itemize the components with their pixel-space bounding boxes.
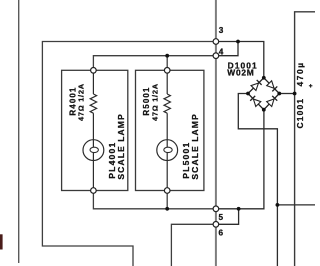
lamp assembly box 1 bbox=[62, 70, 128, 190]
wire: box1 internal top lead bbox=[92, 72, 94, 94]
pin 5 connector bbox=[213, 206, 219, 212]
resistor R4001 bbox=[90, 94, 96, 113]
wire: lamp bottom return to pin 5 bbox=[93, 191, 215, 209]
wire: box2 mid lead bbox=[166, 113, 168, 147]
wire: box1 mid lead bbox=[92, 113, 94, 147]
wire: lamp top feed to pin 4 bbox=[93, 56, 215, 71]
lamp PL5001 bbox=[157, 140, 178, 161]
diode bottom-right bbox=[267, 96, 278, 107]
svg-text:6: 6 bbox=[219, 228, 224, 237]
svg-text:C1001: C1001 bbox=[295, 98, 305, 129]
wire: branch to lamp 2 top bbox=[166, 56, 168, 71]
svg-text:W02M: W02M bbox=[227, 68, 254, 78]
terminal circle box1 bottom bbox=[91, 188, 97, 194]
wire: pin 4 jumper up to net 3 bbox=[216, 42, 238, 56]
svg-text:47Ω 1/2A: 47Ω 1/2A bbox=[150, 83, 159, 121]
lamp assembly box 2 bbox=[136, 70, 204, 190]
wire: box2 internal top lead bbox=[166, 72, 168, 94]
pin 6 connector bbox=[213, 222, 219, 228]
wire: main vertical bus through pins 3,4,5,6 bbox=[215, 0, 217, 266]
wire: pin 5 to bridge bottom bbox=[216, 110, 264, 209]
svg-text:+: + bbox=[309, 83, 313, 90]
wire: branch from lamp 2 bottom bbox=[166, 191, 168, 209]
wire: left vertical bus bbox=[18, 0, 20, 263]
junction: net3/net4 tie bbox=[236, 40, 240, 44]
lamp PL4001 bbox=[83, 140, 104, 161]
junction: lamp top branch bbox=[165, 54, 169, 58]
junction: on right bus bbox=[293, 92, 297, 96]
svg-text:SCALE LAMP: SCALE LAMP bbox=[190, 113, 200, 179]
resistor R5001 bbox=[164, 94, 170, 113]
pin 3 connector bbox=[213, 39, 219, 45]
wire: box2 bottom lead bbox=[166, 153, 168, 191]
bridge rectifier D1001 diamond bbox=[248, 78, 279, 110]
wire: bridge right corner to right bus bbox=[279, 93, 294, 95]
wire: pin 6 routing left down to bottom edge bbox=[171, 224, 216, 266]
junction: bridge top corner bbox=[262, 76, 266, 80]
diode top-left bbox=[251, 80, 262, 91]
wire: box1 bottom lead bbox=[92, 153, 94, 191]
svg-text:SCALE LAMP: SCALE LAMP bbox=[116, 113, 126, 179]
wire: net 3 routing left and down to bottom edge bbox=[42, 42, 216, 266]
junction: lamp bottom branch bbox=[165, 207, 169, 211]
svg-text:5: 5 bbox=[219, 213, 224, 222]
junction: bridge left corner bbox=[246, 92, 250, 96]
svg-text:470µ: 470µ bbox=[295, 61, 305, 86]
junction: tap on right bus bbox=[276, 203, 280, 207]
terminal circle box1 top bbox=[91, 68, 97, 74]
wire: tap to right edge bbox=[277, 204, 315, 206]
svg-text:3: 3 bbox=[219, 26, 224, 35]
svg-text:47Ω 1/2A: 47Ω 1/2A bbox=[77, 83, 86, 121]
wire: right vertical bus from top-right corner bbox=[295, 12, 315, 266]
wire: pin 6 jumper up to net 5 bbox=[216, 209, 239, 225]
terminal circle box2 bottom bbox=[164, 188, 170, 194]
svg-text:4: 4 bbox=[219, 48, 224, 57]
diode bottom-left bbox=[250, 96, 261, 107]
wire: bridge left corner route down right side bbox=[238, 94, 277, 266]
pin 4 connector bbox=[213, 53, 219, 59]
junction: bridge bottom corner bbox=[262, 108, 266, 112]
terminal circle box2 top bbox=[164, 68, 170, 74]
junction: net5/net6 tie bbox=[237, 207, 241, 211]
junction: bridge right corner bbox=[277, 92, 281, 96]
diode top-right bbox=[267, 81, 278, 92]
wire: net 3 to bridge top bbox=[216, 42, 264, 78]
edge mark bbox=[0, 234, 3, 249]
